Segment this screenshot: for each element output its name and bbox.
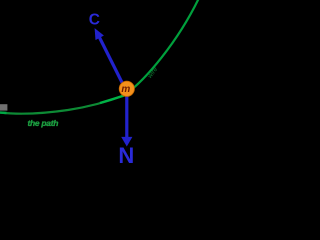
svg-text:C: C <box>89 12 100 29</box>
wire bright section near bead <box>100 96 124 104</box>
gravity force N arrow <box>125 96 128 139</box>
wire upper section to top-right corner <box>124 0 199 96</box>
svg-text:m: m <box>121 84 130 95</box>
constraint force C arrow <box>100 38 124 85</box>
wire bright left tip <box>0 111 7 114</box>
wire anchor block <box>0 104 7 110</box>
bead m <box>119 81 134 96</box>
svg-text:the path: the path <box>28 118 59 128</box>
wire (green curved wire, left valley section) <box>0 96 124 114</box>
svg-text:N: N <box>118 143 134 163</box>
